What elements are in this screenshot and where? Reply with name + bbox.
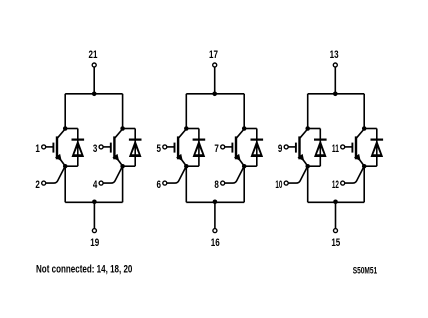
svg-text:1: 1 — [35, 143, 40, 156]
svg-text:15: 15 — [331, 237, 340, 250]
svg-text:19: 19 — [90, 237, 99, 250]
svg-text:8: 8 — [214, 179, 219, 192]
svg-text:6: 6 — [157, 179, 161, 192]
svg-text:13: 13 — [330, 49, 339, 62]
svg-text:3: 3 — [93, 143, 97, 156]
svg-text:9: 9 — [278, 143, 282, 156]
svg-text:7: 7 — [214, 143, 218, 156]
svg-text:17: 17 — [209, 49, 218, 62]
svg-text:16: 16 — [211, 237, 220, 250]
svg-text:12: 12 — [332, 179, 339, 192]
svg-text:5: 5 — [157, 143, 162, 156]
svg-text:S50M51: S50M51 — [353, 266, 378, 277]
svg-text:11: 11 — [332, 143, 339, 156]
svg-text:4: 4 — [93, 179, 98, 192]
svg-text:2: 2 — [35, 179, 39, 192]
svg-text:Not connected: 14, 18, 20: Not connected: 14, 18, 20 — [36, 264, 132, 276]
svg-text:21: 21 — [89, 49, 98, 62]
svg-text:10: 10 — [275, 179, 282, 192]
